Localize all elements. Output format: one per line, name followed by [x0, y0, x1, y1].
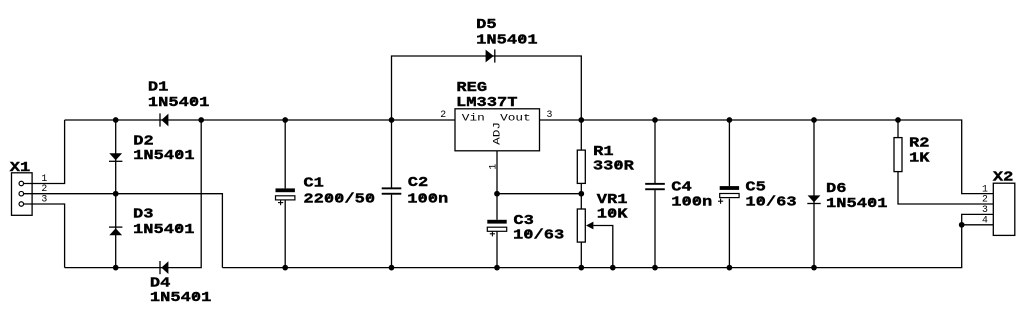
- wire R2 bottom to X2 pin2: [898, 172, 993, 204]
- junction: [282, 117, 288, 123]
- wire D5 bypass loop: [392, 56, 582, 120]
- diode D3: [109, 227, 122, 235]
- junction: [578, 117, 584, 123]
- svg-text:3: 3: [547, 109, 553, 120]
- svg-text:1N5401: 1N5401: [148, 95, 210, 111]
- potentiometer VR1 body: [577, 209, 585, 242]
- diode D6: [807, 195, 820, 203]
- label R2 name: [909, 135, 930, 151]
- svg-text:ADJ: ADJ: [491, 122, 502, 145]
- label C3 value: [513, 227, 564, 243]
- svg-text:330R: 330R: [593, 159, 635, 175]
- label C3 name: [513, 213, 534, 229]
- svg-text:C5: C5: [745, 179, 766, 195]
- wire C4 column lower: [654, 190, 656, 268]
- wire bottom-left rail (through D4) up to main rail: [65, 120, 202, 268]
- svg-text:D1: D1: [148, 80, 169, 96]
- junction: [811, 265, 817, 271]
- diode D1: [160, 113, 168, 126]
- label VR1 name: [597, 192, 628, 208]
- connector X2: [993, 183, 1015, 235]
- svg-text:1: 1: [982, 183, 988, 194]
- wire C5 column lower: [728, 199, 730, 268]
- label C2 name: [408, 175, 429, 191]
- label R1 name: [593, 144, 614, 160]
- wire C1 column lower: [284, 200, 286, 268]
- junction: [895, 117, 901, 123]
- junction: [578, 191, 584, 197]
- junction: [652, 265, 658, 271]
- label D6 value: [826, 196, 888, 212]
- wire bottom rail (right) up to X2 pin3: [222, 214, 993, 267]
- wire main rail left segment (X1.1 corner to REG Vin): [65, 119, 455, 121]
- svg-text:D5: D5: [476, 17, 497, 33]
- junction: [113, 265, 119, 271]
- svg-text:1N5401: 1N5401: [826, 196, 888, 212]
- wire R2 top lead: [897, 120, 899, 138]
- junction: [578, 265, 584, 271]
- junction: [198, 117, 204, 123]
- wire R1 top lead: [580, 120, 582, 150]
- label C5 name: [745, 179, 766, 195]
- label REG value: [456, 95, 518, 111]
- junction: [113, 191, 119, 197]
- wire VR1 bottom lead: [580, 242, 582, 268]
- junction: [610, 265, 616, 271]
- svg-text:C4: C4: [671, 179, 692, 195]
- svg-text:1N5401: 1N5401: [476, 33, 537, 49]
- svg-text:LM337T: LM337T: [456, 95, 518, 111]
- wire C1 column upper: [284, 120, 286, 188]
- wire X1 pin2 to bottom rail: [24, 194, 223, 268]
- wire C3 column lower: [496, 231, 498, 268]
- junction: [727, 265, 733, 271]
- diode D4: [160, 261, 168, 274]
- svg-text:D3: D3: [133, 206, 154, 222]
- svg-text:10K: 10K: [597, 207, 628, 223]
- label C5 value: [745, 195, 796, 211]
- wire X1 pin1 to main rail: [24, 120, 65, 184]
- label D1 value: [148, 95, 210, 111]
- wire C2 column upper: [391, 120, 393, 188]
- label D2 name: [133, 133, 154, 149]
- junction: [282, 265, 288, 271]
- label D4 value: [150, 290, 212, 306]
- op-amp REG LM337T box: [455, 109, 540, 151]
- wire bridge column D2/D3: [115, 120, 117, 268]
- svg-text:1N5401: 1N5401: [150, 290, 212, 306]
- svg-text:REG: REG: [456, 80, 487, 96]
- wire D6 column: [813, 120, 815, 268]
- svg-text:3: 3: [41, 193, 47, 204]
- wire VR1 wiper to bottom rail: [593, 226, 613, 268]
- label C1 value: [303, 192, 375, 208]
- junction: [494, 265, 500, 271]
- label C4 value: [671, 195, 712, 211]
- pin circle X1-1: [19, 181, 24, 186]
- potentiometer VR1 wiper arrow: [586, 222, 593, 230]
- svg-text:1N5401: 1N5401: [133, 222, 195, 238]
- svg-text:D2: D2: [133, 133, 154, 149]
- capacitor C5: [718, 186, 739, 204]
- wire ADJ net horizontal: [497, 193, 581, 195]
- junction: [494, 191, 500, 197]
- label R2 value: [909, 150, 930, 166]
- svg-text:R2: R2: [909, 135, 930, 151]
- junction: [652, 117, 658, 123]
- svg-text:C1: C1: [303, 176, 324, 192]
- svg-text:1N5401: 1N5401: [133, 148, 195, 164]
- wire main rail right segment (REG Vout to X2.1 corner): [540, 120, 994, 194]
- label D4 name: [150, 276, 171, 292]
- junction: [113, 117, 119, 123]
- connector X1: [12, 173, 33, 216]
- resistor R2: [894, 138, 902, 172]
- wire C4 column upper: [654, 120, 656, 183]
- wire C5 column upper: [728, 120, 730, 186]
- wire X2 pin4 stub: [962, 224, 994, 226]
- junction: [389, 265, 395, 271]
- capacitor C3: [487, 220, 506, 237]
- svg-text:VR1: VR1: [597, 192, 628, 208]
- wire REG ADJ pin down: [496, 151, 498, 220]
- capacitor C4: [645, 183, 665, 190]
- svg-text:100n: 100n: [407, 191, 448, 207]
- svg-text:3: 3: [982, 204, 988, 215]
- svg-text:4: 4: [982, 215, 988, 226]
- label C1 name: [303, 176, 324, 192]
- diode D2: [109, 153, 122, 161]
- svg-text:Vin: Vin: [462, 113, 485, 124]
- svg-text:C2: C2: [408, 175, 429, 191]
- svg-text:2: 2: [440, 109, 446, 120]
- label C2 value: [407, 191, 448, 207]
- label D1 name: [148, 80, 169, 96]
- label D3 name: [133, 206, 154, 222]
- svg-text:10/63: 10/63: [745, 195, 796, 211]
- svg-text:1K: 1K: [909, 150, 930, 166]
- junction: [959, 222, 965, 228]
- label D6 name: [826, 181, 847, 197]
- label REG name: [456, 80, 487, 96]
- capacitor C2: [382, 187, 402, 194]
- label X1: [10, 160, 31, 176]
- label D5 value: [476, 33, 537, 49]
- svg-text:2: 2: [982, 194, 988, 205]
- label D2 value: [133, 148, 195, 164]
- junction: [727, 117, 733, 123]
- svg-text:X1: X1: [10, 160, 31, 176]
- svg-text:Vout: Vout: [500, 113, 531, 124]
- label D5 name: [476, 17, 497, 33]
- label D3 value: [133, 222, 195, 238]
- svg-text:2200/50: 2200/50: [303, 192, 375, 208]
- label X2: [993, 170, 1014, 186]
- svg-text:D6: D6: [826, 181, 847, 197]
- svg-text:10/63: 10/63: [513, 227, 564, 243]
- svg-text:100n: 100n: [671, 195, 712, 211]
- diode D5: [486, 49, 495, 62]
- wire X1 pin3 to bottom-left rail: [24, 204, 65, 268]
- resistor R1: [577, 150, 585, 183]
- svg-text:X2: X2: [993, 170, 1014, 186]
- capacitor C1: [276, 188, 295, 205]
- label C4 name: [671, 179, 692, 195]
- wire R1 bottom to VR1 top: [580, 183, 582, 209]
- junction: [811, 117, 817, 123]
- wire C2 column lower: [391, 195, 393, 268]
- svg-text:R1: R1: [593, 144, 614, 160]
- svg-text:1: 1: [488, 164, 499, 170]
- label VR1 value: [597, 207, 628, 223]
- junction: [389, 117, 395, 123]
- label R1 value: [593, 159, 635, 175]
- pin circle X1-2: [19, 191, 24, 196]
- pin circle X1-3: [19, 202, 24, 207]
